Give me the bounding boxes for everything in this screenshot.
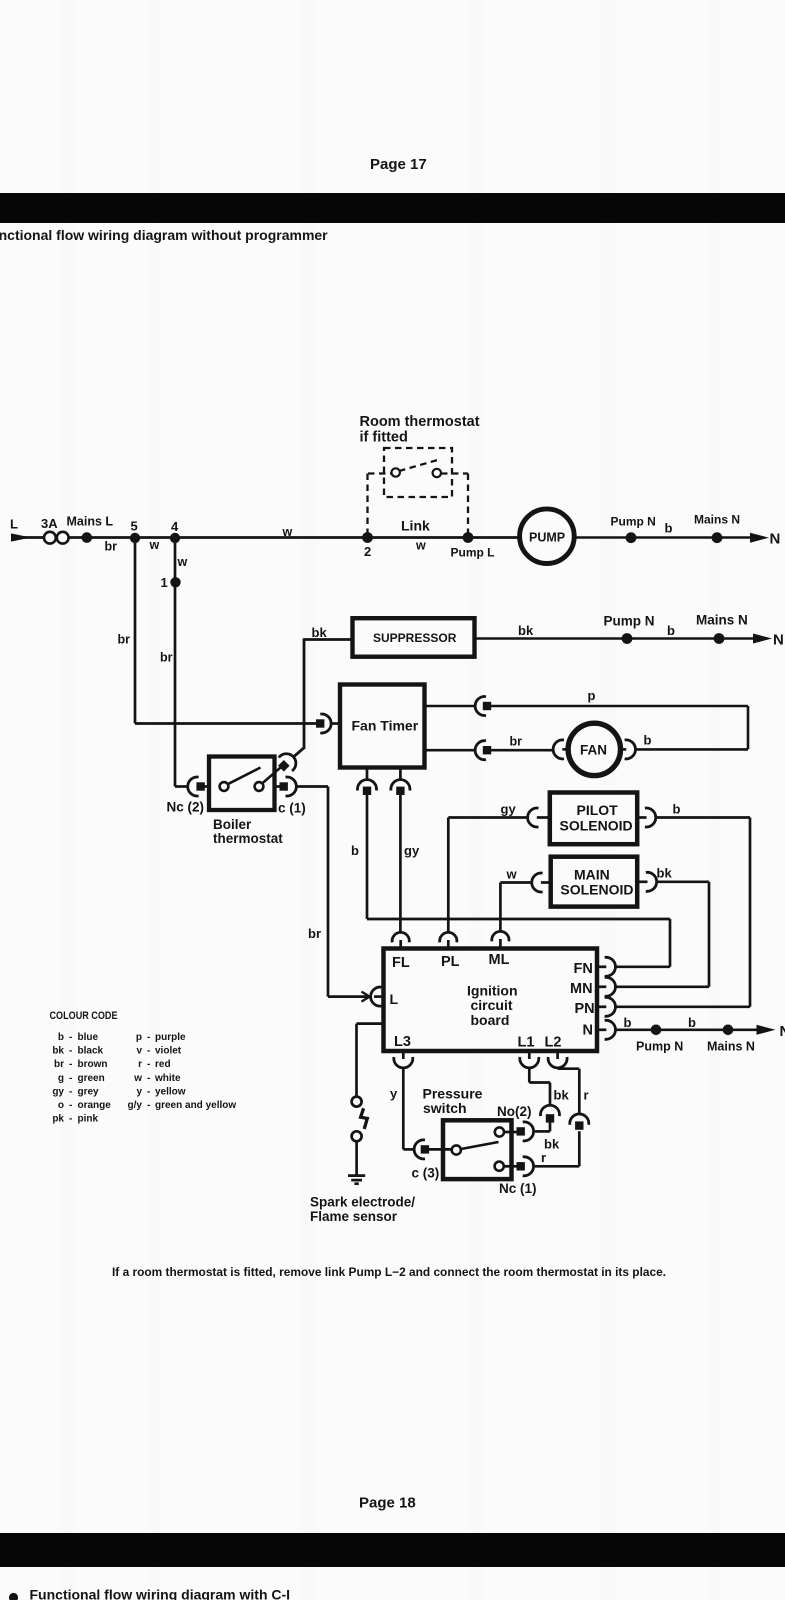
fan timer L input connector [316,714,340,733]
terminal c(3) [412,1140,453,1181]
spark electrode gap [352,1097,368,1175]
svg-text:MN: MN [570,981,593,997]
boiler thermostat box [209,757,283,847]
svg-text:b: b [688,1015,696,1030]
svg-text:L: L [10,517,18,532]
svg-text:N: N [583,1023,593,1039]
svg-text:grey: grey [78,1086,100,1097]
node 2 junction [362,532,373,559]
pin N connector [597,1020,615,1039]
pin L3 connector [394,1051,413,1068]
pin PL connector [440,932,457,948]
svg-text:Pump N: Pump N [611,515,656,529]
node N output arrow (line 1) [750,531,780,548]
wire L1 to bk plug [529,1068,550,1105]
svg-text:Link: Link [401,518,430,534]
svg-text:Flame sensor: Flame sensor [310,1209,398,1224]
wire gy to PL [448,818,527,933]
fan timer U2 [340,685,425,768]
svg-text:-: - [147,1032,150,1043]
pin FL connector [392,932,409,948]
pressure switch contact Nc(1) [495,1162,504,1171]
svg-text:switch: switch [423,1100,467,1116]
svg-text:L: L [390,991,399,1007]
svg-text:bk: bk [657,866,673,881]
bottom black bar [0,1533,785,1567]
svg-text:MAIN: MAIN [574,867,610,883]
svg-text:o: o [58,1100,64,1111]
main solenoid left connector w [506,867,551,893]
wire main bk to MN [615,882,709,987]
wire pilot b to PN [615,818,750,1007]
svg-text:blue: blue [78,1032,99,1043]
svg-text:br: br [118,633,131,647]
svg-text:FN: FN [574,961,593,977]
svg-text:yellow: yellow [155,1086,186,1097]
bottom partial heading (cut by page edge) [9,1593,18,1600]
svg-text:p: p [136,1032,142,1043]
svg-text:5: 5 [131,519,138,534]
svg-text:L1: L1 [518,1035,535,1051]
svg-text:r: r [138,1059,142,1070]
svg-text:FAN: FAN [580,742,607,757]
svg-text:br: br [510,735,523,749]
wire suppressor to mains N (line 2) [475,637,768,640]
svg-text:gy: gy [404,843,420,858]
svg-text:c (3): c (3) [412,1166,440,1181]
connector c(1) upper (45deg) [262,750,300,784]
svg-text:circuit: circuit [471,997,513,1013]
svg-text:Pump L: Pump L [451,546,495,560]
pilot solenoid [550,793,637,845]
svg-text:br: br [308,926,321,941]
wire node4 down to Nc(2) [174,538,177,787]
svg-text:b: b [667,623,675,638]
pressure switch box [423,1085,512,1179]
node L mains input arrow [10,517,31,542]
svg-text:Fan Timer: Fan Timer [352,718,419,734]
fan timer bottom output gy connector [391,768,420,859]
svg-text:board: board [471,1012,510,1028]
svg-text:-: - [69,1086,72,1097]
svg-text:Room thermostat: Room thermostat [360,414,480,430]
pump PUMP [520,509,575,564]
svg-text:y: y [136,1086,142,1097]
pin MN connector [597,977,615,996]
boiler thermostat contact right [255,782,264,791]
svg-text:Functional flow wiring diagram: Functional flow wiring diagram with C-I [30,1587,291,1600]
svg-text:c (1): c (1) [278,801,306,816]
svg-text:gy: gy [52,1086,64,1097]
wire w to ML [500,883,531,933]
ignition circuit board [384,949,598,1052]
pin L connector with plug fork [328,987,384,1006]
svg-text:w: w [177,555,188,569]
pin FN connector [597,957,615,976]
svg-text:-: - [69,1073,72,1084]
terminal c(1) [275,777,329,816]
svg-text:purple: purple [155,1032,186,1043]
svg-text:Nc (1): Nc (1) [499,1181,537,1196]
svg-text:bk: bk [544,1137,560,1152]
svg-text:br: br [160,651,173,665]
main solenoid right connector bk [637,866,672,892]
wire fan b return [636,748,748,751]
wire c(1) down to ignition L (br) [327,787,330,997]
svg-text:Page 17: Page 17 [370,156,427,173]
terminal Nc(1) [499,1157,537,1196]
svg-text:white: white [154,1073,181,1084]
pin PN connector [597,997,615,1016]
svg-text:b: b [624,1015,632,1030]
suppressor U3 [353,618,475,657]
wire ignition board to spark electrode [357,1024,384,1097]
node N output arrow (line 3, clipped) [757,1023,785,1040]
svg-text:b: b [665,521,673,536]
svg-text:Nc (2): Nc (2) [167,800,205,815]
svg-text:red: red [155,1059,171,1070]
svg-text:pk: pk [52,1114,64,1125]
pin ML connector [492,931,509,948]
node Pump L junction [451,532,495,559]
svg-text:black: black [78,1046,104,1057]
svg-text:v: v [136,1046,142,1057]
svg-text:-: - [69,1059,72,1070]
svg-text:w: w [149,538,160,552]
wire L3 to c(3), label y [403,1068,413,1149]
svg-text:-: - [147,1086,150,1097]
svg-text:violet: violet [155,1046,182,1057]
fuse 3A (two circles) [41,516,69,544]
svg-text:w: w [415,539,426,553]
top black bar [0,193,785,223]
svg-text:Boiler: Boiler [213,817,252,832]
svg-text:Mains L: Mains L [67,514,114,528]
svg-text:PILOT: PILOT [577,802,619,818]
svg-text:SOLENOID: SOLENOID [560,882,633,898]
svg-text:-: - [69,1032,72,1043]
pressure switch blade [461,1142,499,1149]
wire L2 to r plug [558,1068,580,1114]
svg-text:w: w [506,867,518,882]
fan timer output p connector [425,697,492,716]
svg-text:green: green [78,1073,105,1084]
svg-text:bk: bk [554,1088,570,1103]
svg-text:-: - [147,1073,150,1084]
svg-text:-: - [147,1059,150,1070]
svg-text:Mains N: Mains N [694,513,740,527]
pressure switch common contact [452,1145,461,1154]
pilot solenoid left connector gy [501,802,550,828]
room thermostat (dashed) [368,448,469,535]
svg-text:2: 2 [364,544,371,559]
colour code legend [50,1010,237,1125]
svg-text:p: p [588,688,596,703]
svg-text:Page 18: Page 18 [359,1495,416,1512]
pin L2 connector [548,1051,567,1068]
svg-text:bk: bk [518,623,534,638]
svg-text:N: N [770,531,781,548]
pin L1 connector [520,1051,539,1068]
svg-text:w: w [282,525,293,539]
svg-text:N: N [780,1023,785,1040]
node Mains N dot (line 1) [694,513,740,544]
svg-text:-: - [69,1114,72,1125]
node Pump N dot (line 1) [611,515,656,544]
svg-text:gy: gy [501,802,517,817]
svg-text:N: N [773,632,784,649]
ground [348,1176,365,1184]
node N output arrow (line 2) [753,632,784,649]
svg-text:Mains N: Mains N [707,1040,755,1054]
svg-text:if fitted: if fitted [360,430,408,446]
svg-text:b: b [351,843,359,858]
svg-text:-: - [69,1046,72,1057]
svg-text:b: b [58,1032,64,1043]
fan timer output br connector [425,735,554,760]
svg-text:br: br [54,1059,64,1070]
node 4 junction [170,519,180,543]
room thermostat contacts [392,468,400,476]
svg-text:SOLENOID: SOLENOID [560,818,633,834]
connector bk mating (No2 lead) [535,1105,560,1151]
wire N to mains N (line 3) [615,1029,761,1032]
svg-text:br: br [105,540,118,554]
svg-text:brown: brown [78,1059,108,1070]
fan FAN [553,723,635,775]
svg-text:SUPPRESSOR: SUPPRESSOR [373,631,457,645]
node Pump N dot (line 2) [604,614,655,644]
svg-text:1: 1 [161,575,168,590]
main solenoid [551,857,638,907]
svg-text:Spark electrode/: Spark electrode/ [310,1195,415,1210]
svg-text:Ignition: Ignition [467,982,518,998]
svg-text:PL: PL [441,954,460,970]
wire pump to mains N [574,536,764,539]
boiler thermostat contact left [220,782,229,791]
wire bk from c(1) up to suppressor [293,638,352,757]
svg-text:bk: bk [52,1046,64,1057]
svg-text:w: w [133,1073,142,1084]
wire fan timer gy down to FL [399,794,402,933]
svg-text:Functional flow wiring diagram: Functional flow wiring diagram without p… [0,227,328,243]
node 5 junction [130,519,140,544]
svg-text:Pump N: Pump N [604,614,655,629]
wire p loop [491,706,749,749]
node Mains N dot (line 3) [707,1025,755,1054]
svg-text:r: r [541,1150,546,1165]
svg-text:-: - [147,1046,150,1057]
node Mains L junction dot [67,514,114,543]
svg-text:g: g [58,1073,64,1084]
terminal No(2) [497,1104,534,1141]
wire node5 down to fan timer L [134,538,137,724]
svg-text:g/y: g/y [128,1100,143,1111]
svg-text:If a room thermostat is fitted: If a room thermostat is fitted, remove l… [112,1265,666,1279]
boiler thermostat blade [228,768,261,785]
svg-text:r: r [584,1088,589,1103]
svg-text:b: b [644,733,652,748]
svg-text:L3: L3 [394,1034,411,1050]
svg-text:L2: L2 [545,1035,562,1051]
node 1 junction [161,575,181,590]
svg-text:ML: ML [489,952,510,968]
svg-text:PUMP: PUMP [529,531,565,545]
pressure switch contact No(2) [495,1127,504,1136]
svg-text:y: y [390,1086,398,1101]
svg-text:-: - [69,1100,72,1111]
pilot solenoid right connector b [637,802,680,828]
svg-text:FL: FL [392,955,410,971]
svg-text:pink: pink [78,1114,99,1125]
terminal Nc(2) [167,777,210,815]
wire fan timer b to FN [367,794,670,967]
svg-text:No(2): No(2) [497,1104,532,1119]
svg-text:4: 4 [171,519,179,534]
svg-text:-: - [147,1100,150,1111]
svg-text:bk: bk [312,625,328,640]
node Mains N dot (line 2) [696,613,748,644]
fan timer bottom output b connector [351,768,377,859]
node Pump N dot (line 3) [636,1025,683,1054]
svg-text:thermostat: thermostat [213,831,283,846]
svg-text:Pump N: Pump N [636,1040,683,1054]
svg-text:b: b [673,802,681,817]
svg-text:PN: PN [575,1001,595,1017]
svg-text:3A: 3A [41,516,58,531]
connector r mating (Nc1 lead) [535,1114,589,1166]
svg-text:COLOUR CODE: COLOUR CODE [50,1010,118,1022]
svg-text:Mains N: Mains N [696,613,748,628]
wire mains L line [20,536,520,539]
svg-text:orange: orange [78,1100,112,1111]
svg-text:green and yellow: green and yellow [155,1100,236,1111]
